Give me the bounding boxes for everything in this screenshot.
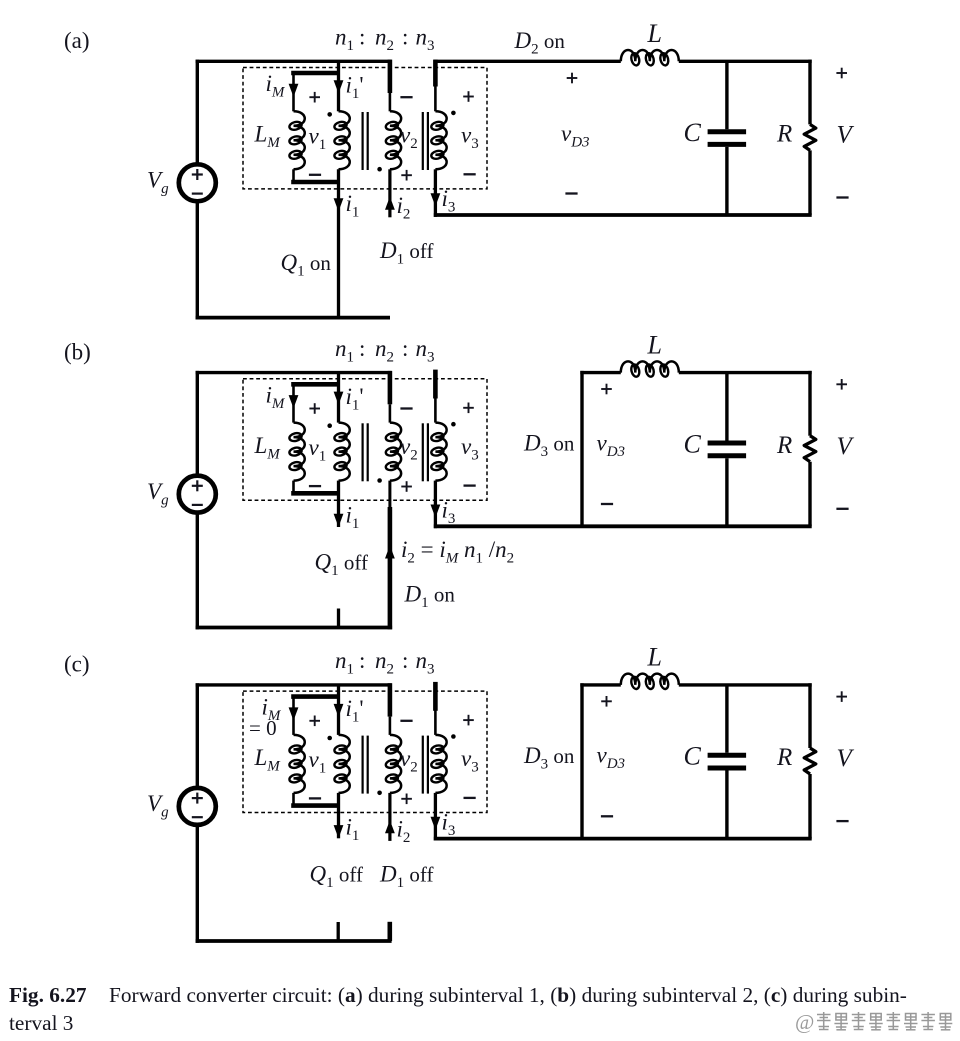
winding v1 (c)	[334, 735, 350, 793]
svg-text:vD3: vD3	[597, 743, 626, 773]
winding v2 (b)	[385, 423, 401, 481]
wire LM bottom (bold) (c)	[291, 803, 338, 808]
current arrow i2 (b)	[385, 545, 395, 558]
wire top rail primary (a)	[196, 60, 392, 63]
voltage source Vg circle (a)	[179, 164, 216, 201]
svg-text:C: C	[684, 118, 702, 147]
svg-text:vD3: vD3	[561, 121, 590, 151]
minus sign v1 (a)	[309, 174, 321, 176]
wire v2 upper thin (a)	[389, 93, 392, 111]
wire v2 upper thin (c)	[389, 717, 392, 735]
polarity dot v2 (a)	[377, 167, 382, 172]
minus sign v2 (b)	[400, 407, 412, 409]
svg-text:L: L	[647, 19, 662, 48]
minus sign inside Vg (c)	[192, 816, 203, 818]
winding v1 (a)	[334, 111, 350, 169]
winding v2 (a)	[385, 111, 401, 169]
wire v2 lower thin (b)	[388, 481, 391, 507]
current arrow i3 (c)	[431, 817, 441, 830]
current arrow i1 (c)	[334, 825, 344, 838]
svg-text:v3: v3	[461, 434, 479, 464]
svg-text:C: C	[684, 429, 702, 458]
transformer core bars 2 (b)	[423, 423, 428, 481]
svg-text:n1:n2:n3: n1:n2:n3	[335, 648, 435, 678]
wire v1 branch upper (b)	[337, 373, 340, 423]
wire LM bottom (bold) (a)	[291, 180, 338, 185]
svg-text:L: L	[647, 330, 662, 359]
minus sign v2 (c)	[400, 720, 412, 722]
svg-text:i3: i3	[442, 497, 456, 527]
plus sign inside Vg (b)	[192, 480, 203, 491]
transformer core bars 2 (a)	[423, 112, 428, 170]
winding v3 (a)	[430, 111, 446, 169]
svg-text:Q1 off: Q1 off	[310, 862, 363, 892]
plus sign vD3 (a)	[567, 73, 578, 84]
inductor L (c)	[621, 674, 679, 690]
voltage source Vg circle (c)	[179, 788, 216, 825]
wire v3 top stub open (bold) (b)	[433, 370, 438, 399]
svg-text:D3 on: D3 on	[523, 431, 575, 461]
minus sign output (a)	[836, 196, 848, 198]
wire v1 branch upper (a)	[337, 61, 340, 111]
polarity dot v2 (c)	[377, 791, 382, 796]
current arrow i1 (a)	[334, 198, 344, 211]
svg-text:LM: LM	[254, 745, 282, 775]
polarity dot v2 (b)	[377, 478, 382, 483]
svg-text:R: R	[776, 744, 792, 771]
wire left rail lower (c)	[196, 825, 199, 943]
wire secondary bottom rail (c)	[434, 837, 812, 841]
plus sign v1 (a)	[309, 92, 320, 103]
svg-text:LM: LM	[254, 433, 282, 463]
current arrow i1prime (b)	[334, 392, 344, 405]
winding v2 (c)	[385, 735, 401, 793]
wire v3 top stub open (bold) (c)	[433, 682, 438, 711]
wire left rail upper (a)	[196, 60, 199, 165]
svg-text:i3: i3	[442, 186, 456, 216]
wire v2 upper thin (b)	[389, 404, 392, 422]
svg-text:Forward converter circuit: (a): Forward converter circuit: (a) during su…	[109, 983, 907, 1007]
plus sign v3 (c)	[463, 715, 474, 726]
wire LM vertical upper (a)	[292, 73, 295, 111]
voltage source Vg circle (b)	[179, 476, 216, 513]
svg-text:Vg: Vg	[147, 168, 169, 198]
wire output top rail left (b)	[580, 371, 621, 374]
svg-text:v2: v2	[400, 123, 418, 153]
svg-text:Q1 on: Q1 on	[281, 250, 332, 280]
wire LM vertical lower (a)	[292, 169, 295, 182]
svg-text:v3: v3	[461, 746, 479, 776]
svg-text:D1 off: D1 off	[379, 238, 433, 268]
winding v1 (b)	[334, 423, 350, 481]
svg-text:v3: v3	[461, 123, 479, 153]
plus sign v3 (b)	[463, 403, 474, 414]
svg-text:vD3: vD3	[597, 430, 626, 460]
current arrow i1prime (a)	[334, 80, 344, 93]
minus sign output (c)	[836, 820, 848, 822]
transformer core bars 1 (b)	[363, 423, 368, 481]
wire bottom rail (a)	[196, 316, 390, 320]
minus sign output (b)	[836, 508, 848, 510]
winding v3 (c)	[430, 735, 446, 793]
inductor LM winding (a)	[289, 111, 305, 169]
minus sign vD3 (b)	[601, 503, 613, 505]
svg-text:i2: i2	[397, 817, 411, 847]
wire left rail lower (b)	[196, 513, 199, 630]
svg-text:i1': i1'	[346, 384, 364, 414]
wire output top rail right (b)	[679, 371, 812, 374]
wire left rail upper (c)	[196, 683, 199, 788]
svg-text:Fig. 6.27: Fig. 6.27	[9, 983, 87, 1007]
svg-text:i2: i2	[397, 193, 411, 223]
wire top rail secondary left (a)	[434, 60, 621, 63]
wire LM top (bold) (b)	[291, 382, 338, 387]
svg-text:v1: v1	[309, 747, 327, 777]
wire i2 conducting D1 (bold) (b)	[388, 507, 393, 629]
plus sign output (c)	[836, 691, 847, 702]
wire LM vertical lower (c)	[292, 793, 295, 806]
wire v2 top stub (bold) (c)	[388, 683, 393, 716]
wire v3 top stub (bold) (a)	[433, 60, 438, 87]
switch Q1 open stub (c)	[337, 922, 340, 941]
wire secondary bottom rail (b)	[434, 524, 812, 528]
wire top rail primary (b)	[196, 371, 392, 374]
current arrow i1prime (c)	[334, 704, 344, 717]
svg-text:@: @	[795, 1010, 814, 1034]
transformer ideal-box dashed outline (a)	[243, 68, 487, 189]
svg-text:Vg: Vg	[147, 791, 169, 821]
transformer core bars 1 (c)	[363, 736, 368, 794]
plus sign v2 (a)	[401, 170, 412, 181]
plus sign v1 (b)	[309, 403, 320, 414]
wire bottom rail (b)	[196, 626, 393, 630]
svg-text:V: V	[837, 745, 855, 772]
minus sign v3 (a)	[464, 173, 476, 175]
transformer ideal-box dashed outline (c)	[243, 691, 487, 812]
wire LM vertical upper (b)	[292, 384, 295, 422]
svg-text:(b): (b)	[64, 339, 91, 364]
svg-text:v1: v1	[309, 124, 327, 154]
svg-text:v2: v2	[400, 746, 418, 776]
wire output top rail left (c)	[580, 683, 621, 686]
plus sign v3 (a)	[463, 91, 474, 102]
svg-text:v1: v1	[309, 435, 327, 465]
wire LM bottom (bold) (b)	[291, 491, 338, 496]
wire LM top (bold) (c)	[291, 694, 338, 699]
wire left rail upper (b)	[196, 371, 199, 476]
svg-text:v2: v2	[400, 434, 418, 464]
inductor L (a)	[621, 50, 679, 66]
svg-text:Q1 off: Q1 off	[315, 550, 368, 580]
svg-text:V: V	[837, 122, 855, 149]
wire LM top (bold) (a)	[291, 71, 338, 76]
diode D1 open stub (c)	[387, 922, 392, 941]
svg-text:D2 on: D2 on	[514, 28, 566, 58]
svg-text:V: V	[837, 433, 855, 460]
svg-text:R: R	[776, 432, 792, 459]
plus sign v1 (c)	[309, 716, 320, 727]
svg-text:iM: iM	[266, 382, 286, 412]
minus sign vD3 (a)	[565, 192, 577, 194]
wire bottom rail (c)	[196, 939, 392, 943]
plus sign vD3 (c)	[601, 696, 612, 707]
capacitor C (b)	[708, 373, 747, 527]
wire LM vertical lower (b)	[292, 481, 295, 494]
svg-text:= 0: = 0	[249, 716, 277, 740]
transformer core bars 1 (a)	[363, 112, 368, 170]
minus sign v1 (b)	[309, 485, 321, 487]
resistor R (a)	[804, 60, 816, 215]
svg-text:D1 on: D1 on	[404, 582, 456, 612]
wire D3 branch vertical (c)	[580, 683, 583, 838]
wire v3 upper thin (c)	[434, 710, 437, 735]
capacitor C (a)	[708, 61, 747, 215]
capacitor C (c)	[708, 685, 747, 839]
minus sign vD3 (c)	[601, 815, 613, 817]
wire output top rail right (c)	[679, 683, 812, 686]
polarity dot v3 (c)	[451, 734, 456, 739]
wire i1 branch to Q1 (a)	[337, 169, 340, 319]
svg-text:i3: i3	[442, 810, 456, 840]
current arrow iM (a)	[289, 84, 299, 97]
wire i1 branch (open) (c)	[337, 793, 340, 838]
minus sign inside Vg (a)	[192, 193, 203, 195]
svg-text:n1:n2:n3: n1:n2:n3	[335, 25, 435, 55]
wire i2 stub (c)	[388, 793, 391, 841]
wire LM vertical upper (c)	[292, 697, 295, 735]
svg-text:terval 3: terval 3	[9, 1011, 73, 1035]
current arrow i3 (a)	[431, 193, 441, 206]
svg-text:(a): (a)	[64, 28, 90, 53]
wire v2 top stub (bold) (b)	[388, 371, 393, 404]
resistor R (c)	[804, 683, 816, 838]
svg-text:i1: i1	[346, 815, 360, 845]
plus sign v2 (c)	[401, 794, 412, 805]
wire v1 branch upper (c)	[337, 685, 340, 735]
polarity dot v1 (b)	[327, 423, 332, 428]
current arrow i1 (b)	[334, 514, 344, 527]
current arrow i2 (a)	[385, 197, 395, 210]
polarity dot v3 (a)	[451, 111, 456, 116]
svg-text:i1: i1	[346, 191, 360, 221]
wire v3 upper thin (a)	[434, 87, 437, 112]
minus sign inside Vg (b)	[192, 504, 203, 506]
transformer core bars 2 (c)	[423, 736, 428, 794]
wire secondary bottom rail (a)	[434, 213, 812, 217]
wire i3 branch (c)	[434, 793, 437, 841]
plus sign output (a)	[836, 68, 847, 79]
wire left rail lower (a)	[196, 201, 199, 319]
winding v3 (b)	[430, 423, 446, 481]
polarity dot v3 (b)	[451, 422, 456, 427]
current arrow i3 (b)	[431, 505, 441, 518]
svg-text:D1 off: D1 off	[379, 862, 433, 892]
svg-text:LM: LM	[254, 122, 282, 152]
wire i3 branch (a)	[434, 169, 437, 217]
plus sign output (b)	[836, 379, 847, 390]
svg-text:iM: iM	[266, 71, 286, 101]
current arrow iM (c)	[289, 707, 299, 720]
plus sign v2 (b)	[401, 481, 412, 492]
minus sign v3 (b)	[464, 484, 476, 486]
minus sign v1 (c)	[309, 797, 321, 799]
watermark pseudo CJK glyphs	[817, 1012, 952, 1030]
switch Q1 open stub (b)	[337, 609, 340, 628]
plus sign inside Vg (c)	[192, 793, 203, 804]
polarity dot v1 (c)	[327, 736, 332, 741]
wire v2 top stub (bold) (a)	[388, 60, 393, 93]
current arrow iM (b)	[289, 395, 299, 408]
svg-text:L: L	[647, 643, 662, 672]
wire v3 upper thin (b)	[434, 398, 437, 423]
minus sign v2 (a)	[400, 96, 412, 98]
svg-text:(c): (c)	[64, 652, 90, 677]
svg-text:n1:n2:n3: n1:n2:n3	[335, 336, 435, 366]
plus sign inside Vg (a)	[192, 169, 203, 180]
inductor L (b)	[621, 361, 679, 377]
transformer ideal-box dashed outline (b)	[243, 379, 487, 500]
svg-text:Vg: Vg	[147, 479, 169, 509]
polarity dot v1 (a)	[327, 112, 332, 117]
wire i2 stub (a)	[388, 169, 391, 217]
wire top rail secondary right (a)	[679, 60, 812, 63]
inductor LM winding (c)	[289, 735, 305, 793]
plus sign vD3 (b)	[601, 384, 612, 395]
svg-text:i2 = iM n1 /n2: i2 = iM n1 /n2	[401, 537, 514, 567]
svg-text:i1: i1	[346, 502, 360, 532]
svg-text:C: C	[684, 742, 702, 771]
wire D3 branch vertical (b)	[580, 371, 583, 526]
wire i3 branch (b)	[434, 481, 437, 529]
inductor LM winding (b)	[289, 423, 305, 481]
current arrow i2 (c)	[385, 820, 395, 833]
svg-text:i1': i1'	[346, 696, 364, 726]
svg-text:R: R	[776, 121, 792, 148]
wire i1 branch (open) (b)	[337, 481, 340, 527]
svg-text:D3 on: D3 on	[523, 743, 575, 773]
minus sign v3 (c)	[464, 797, 476, 799]
resistor R (b)	[804, 371, 816, 526]
wire top rail primary (c)	[196, 683, 392, 686]
svg-text:i1': i1'	[346, 73, 364, 103]
